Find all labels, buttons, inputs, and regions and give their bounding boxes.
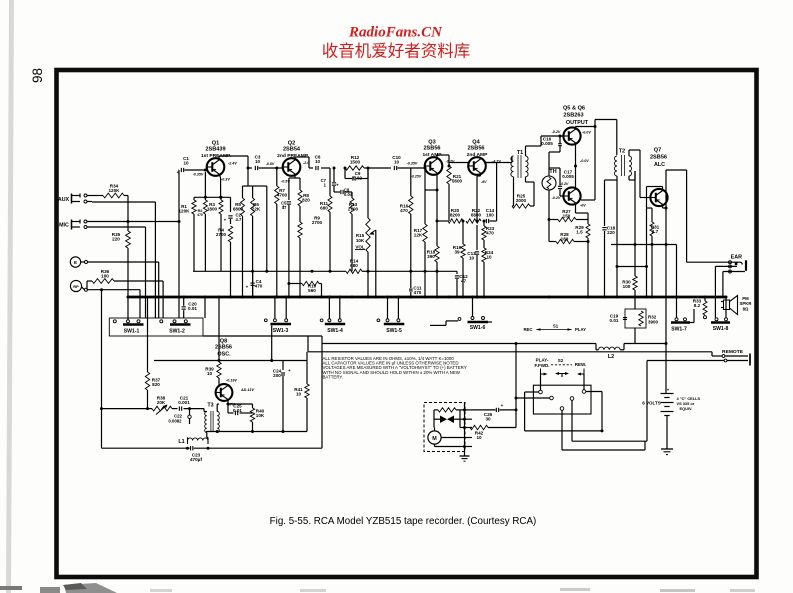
svg-text:8Ω: 8Ω (743, 306, 749, 311)
motor resistor (438, 408, 456, 412)
svg-text:39: 39 (454, 250, 460, 255)
jack E wire (87, 261, 159, 263)
svg-text:PLAY: PLAY (575, 327, 586, 332)
svg-text:SW1-8: SW1-8 (713, 326, 729, 332)
switch box SW1-1 SW1-2 (109, 318, 203, 336)
svg-text:SW1-1: SW1-1 (124, 328, 140, 334)
svg-text:100: 100 (486, 213, 494, 218)
wire remote top (711, 352, 713, 356)
svg-text:2000: 2000 (516, 198, 527, 203)
svg-text:0.0082: 0.0082 (168, 419, 182, 424)
wire MIC top (87, 221, 179, 223)
wire T1 to Q5 base (526, 145, 542, 147)
wire to C10 (368, 167, 391, 169)
wire input vertical to C1 (178, 170, 180, 318)
transistor Q6 (563, 187, 580, 204)
svg-text:-2.4V: -2.4V (228, 162, 237, 166)
svg-text:2SB56: 2SB56 (650, 155, 667, 161)
wire mid rail right part (368, 270, 457, 272)
svg-text:200: 200 (273, 373, 281, 378)
wire L2 feed riser (321, 344, 323, 449)
svg-text:5600: 5600 (452, 179, 463, 184)
svg-text:SW1-5: SW1-5 (386, 328, 402, 334)
svg-text:+: + (288, 368, 291, 373)
svg-text:+: + (177, 170, 180, 175)
wire R20 row (437, 220, 448, 222)
wire SW1-3 to osc rail (271, 325, 273, 360)
svg-text:-0.3V: -0.3V (221, 178, 230, 182)
svg-text:SPKR: SPKR (740, 301, 753, 306)
svg-text:2SB263: 2SB263 (563, 113, 583, 119)
svg-text:SW1-2: SW1-2 (169, 328, 185, 334)
wire R30 cross (611, 244, 677, 246)
wire Q4 base link (468, 163, 470, 167)
switch SW1-4 (328, 319, 331, 322)
svg-text:10: 10 (394, 160, 400, 165)
wire EAR to amp (686, 170, 688, 262)
svg-text:F.FWD.: F.FWD. (535, 363, 550, 368)
svg-text:30: 30 (485, 417, 491, 422)
svg-text:3900: 3900 (648, 320, 659, 325)
wire Q1 emitter (219, 174, 220, 178)
svg-text:0.005: 0.005 (541, 141, 553, 146)
wire base bias (243, 185, 253, 187)
svg-text:-0.2V: -0.2V (552, 196, 561, 200)
svg-text:6 VOLTS: 6 VOLTS (642, 401, 660, 406)
jack RP (70, 280, 81, 291)
wire SW1-7 feed (676, 245, 678, 298)
wire long vertical left (101, 290, 103, 449)
jack RP wire (87, 289, 140, 291)
svg-text:2SB56: 2SB56 (467, 146, 484, 152)
svg-text:SW1-3: SW1-3 (273, 328, 289, 334)
wire SW1-6 left (446, 320, 458, 322)
wire C14 up to collector line (496, 163, 498, 222)
svg-text:EQUIV.: EQUIV. (680, 406, 693, 411)
svg-text:10: 10 (486, 255, 492, 260)
svg-text:+: + (282, 204, 285, 209)
svg-text:REW.: REW. (575, 362, 587, 367)
motor M (428, 431, 441, 444)
wire MIC bottom (87, 226, 146, 228)
switch SW1-3 (273, 319, 276, 322)
svg-text:+: + (667, 388, 670, 393)
wire Q6 emitter (575, 204, 577, 213)
svg-text:1500: 1500 (350, 160, 361, 165)
svg-text:0.01: 0.01 (188, 306, 197, 311)
svg-text:470: 470 (486, 231, 494, 236)
wire mid rail (193, 270, 346, 272)
svg-text:0.01: 0.01 (610, 318, 619, 323)
motor dashed box (424, 403, 465, 452)
svg-text:EAR: EAR (731, 254, 742, 260)
svg-text:OUTPUT: OUTPUT (566, 120, 589, 126)
wire supply line (665, 170, 667, 389)
wire remote bottom (647, 360, 724, 362)
svg-text:-0.35V: -0.35V (193, 173, 204, 177)
svg-text:+: + (336, 183, 339, 188)
svg-text:收音机爱好者资料库: 收音机爱好者资料库 (322, 42, 471, 61)
svg-text:S1: S1 (553, 324, 559, 329)
svg-text:E: E (74, 260, 77, 265)
svg-text:100: 100 (101, 274, 109, 279)
switch SW1-6 (471, 317, 474, 320)
svg-text:2700: 2700 (312, 220, 323, 225)
main ground bus (128, 296, 726, 299)
svg-text:470: 470 (197, 213, 203, 217)
svg-text:2SB439: 2SB439 (205, 147, 225, 153)
svg-text:1800: 1800 (207, 207, 218, 212)
svg-text:10: 10 (255, 159, 261, 164)
svg-text:REMOTE: REMOTE (722, 349, 744, 355)
wire feed A (322, 343, 596, 345)
svg-text:+: + (246, 285, 249, 290)
wire Q5Q6 collector tie (594, 127, 596, 201)
svg-text:470μf: 470μf (190, 457, 202, 462)
svg-text:2SB54: 2SB54 (283, 147, 301, 153)
wire AUX bottom (87, 201, 92, 203)
svg-text:6800: 6800 (471, 213, 482, 218)
wire sw box feeds (204, 297, 206, 318)
wire C3 bias vertical (266, 186, 268, 271)
svg-text:4.7: 4.7 (236, 217, 242, 222)
wire Q7 emitter (662, 204, 664, 208)
svg-text:10: 10 (183, 161, 189, 166)
wire T2 secondary (628, 150, 630, 156)
switch SW1-1 (127, 320, 130, 323)
wire box bottom to feed (147, 334, 149, 336)
wire ALC feedback (647, 207, 653, 209)
wire Q8 collector column (218, 297, 220, 362)
svg-text:120K: 120K (179, 209, 191, 214)
svg-text:-0.8V: -0.8V (266, 162, 275, 166)
svg-text:BATTERY.: BATTERY. (323, 374, 344, 379)
svg-text:-0.19V: -0.19V (226, 379, 237, 383)
svg-text:560: 560 (308, 288, 316, 293)
svg-text:-0.25V: -0.25V (411, 175, 422, 179)
svg-text:820: 820 (302, 198, 310, 203)
page edge artifacts (6, 0, 14, 593)
svg-text:-0.35V: -0.35V (407, 162, 418, 166)
svg-text:+: + (501, 403, 504, 408)
svg-text:680: 680 (320, 206, 328, 211)
svg-text:WITH NO SIGNAL AND SHOULD: WITH NO SIGNAL AND SHOULD HOLD WITHIN ± … (323, 370, 461, 375)
svg-text:SW1-7: SW1-7 (671, 327, 687, 333)
svg-text:-0.2V: -0.2V (560, 182, 569, 186)
switch SW1-5 (386, 319, 389, 322)
svg-text:10: 10 (207, 371, 213, 376)
osc bottom rail (206, 431, 307, 433)
wire Q8 emitter (227, 399, 229, 413)
svg-text:10: 10 (296, 392, 302, 397)
wire Q4 emitter (480, 173, 482, 176)
wire T2 primary bottom (616, 176, 618, 297)
wire Q7 collector (662, 187, 664, 192)
svg-text:8.2: 8.2 (694, 303, 701, 308)
svg-text:820: 820 (152, 382, 160, 387)
svg-text:10K: 10K (356, 238, 365, 243)
svg-text:-6.0V: -6.0V (582, 131, 591, 135)
wire Q2 collector to C6 (294, 157, 296, 160)
svg-text:REC: REC (523, 327, 532, 332)
svg-text:L2: L2 (608, 354, 614, 360)
wire Q5 emitter down (575, 143, 577, 188)
svg-text:-0.0V: -0.0V (580, 159, 589, 163)
switch S2 arrows (541, 369, 547, 375)
wire C1 to Q1 (185, 169, 208, 171)
svg-text:680: 680 (350, 263, 358, 268)
svg-text:AUX: AUX (58, 197, 70, 203)
wire C3 to Q2 (259, 167, 284, 169)
svg-text:SW1-4: SW1-4 (327, 328, 343, 334)
motor ground (464, 452, 466, 456)
pot wiper R15 (371, 230, 376, 234)
svg-text:470: 470 (255, 284, 263, 289)
svg-text:Q5 & Q6: Q5 & Q6 (563, 106, 585, 112)
wire Q4 to T1 (485, 162, 512, 164)
wire Q3 to Q4 (449, 162, 469, 164)
jack E (70, 257, 80, 267)
svg-text:1.5: 1.5 (576, 230, 583, 235)
svg-text:10: 10 (469, 256, 475, 261)
svg-text:TH: TH (549, 169, 556, 175)
motor diode (440, 416, 447, 424)
svg-text:10K: 10K (256, 413, 265, 418)
wire Q1 collector to C3 (218, 156, 220, 160)
svg-text:T2: T2 (619, 149, 625, 155)
svg-text:470: 470 (400, 208, 408, 213)
svg-text:L1: L1 (178, 439, 184, 445)
speaker PM SPKR (730, 296, 738, 315)
wire Q1 bias rail (194, 196, 231, 198)
border frame (57, 70, 757, 577)
svg-text:8200: 8200 (450, 213, 461, 218)
svg-text:10: 10 (476, 435, 482, 440)
svg-text:0.005: 0.005 (562, 174, 574, 179)
switch SW1-2 (173, 320, 176, 323)
svg-text:RadioFans.CN: RadioFans.CN (348, 25, 443, 41)
svg-text:470: 470 (414, 290, 422, 295)
wire S2 riser (515, 344, 517, 399)
wire osc top rail (154, 360, 307, 362)
jack AUX (71, 194, 73, 204)
svg-text:47: 47 (461, 279, 467, 284)
switch S2 wires (525, 391, 539, 393)
switch SW1-7 (675, 318, 678, 321)
switch S2 box (533, 385, 591, 414)
svg-text:-0.2V: -0.2V (552, 130, 561, 134)
svg-text:2SB56: 2SB56 (215, 345, 232, 351)
svg-text:220: 220 (112, 237, 120, 242)
svg-text:RP: RP (73, 284, 79, 289)
svg-text:Q7: Q7 (654, 148, 661, 154)
svg-text:1: 1 (324, 183, 327, 188)
svg-text:Fig. 5-55. RCA Model YZB515 ta: Fig. 5-55. RCA Model YZB515 tape recorde… (270, 516, 537, 527)
svg-text:98: 98 (30, 68, 45, 83)
svg-text:ALC: ALC (654, 162, 665, 168)
svg-text:-6V: -6V (481, 180, 487, 184)
wire S2 bottom rails (572, 440, 647, 442)
switch SW1-8 (715, 318, 718, 321)
svg-text:0.001: 0.001 (178, 400, 190, 405)
pot R38 arrow (156, 406, 167, 415)
svg-text:T3: T3 (207, 403, 213, 409)
transistor Q8 (216, 384, 233, 401)
svg-text:100: 100 (623, 284, 631, 289)
svg-text:-6V: -6V (580, 204, 586, 208)
battery ground (661, 448, 673, 450)
svg-text:M: M (432, 436, 437, 442)
svg-text:S2: S2 (558, 358, 564, 363)
svg-text:SW1-6: SW1-6 (470, 325, 486, 331)
svg-text:150: 150 (563, 214, 571, 219)
svg-text:12K: 12K (414, 233, 423, 238)
wire Q5 collector to T2 (575, 127, 577, 130)
svg-text:2700: 2700 (216, 232, 227, 237)
svg-text:MIC: MIC (59, 222, 69, 228)
svg-text:10: 10 (315, 159, 321, 164)
svg-text:120K: 120K (109, 188, 121, 193)
svg-text:220: 220 (607, 230, 615, 235)
svg-text:+: + (224, 218, 227, 223)
svg-text:VOL: VOL (355, 245, 365, 250)
svg-text:390: 390 (427, 254, 435, 259)
wire feed B (308, 351, 712, 353)
jack MIC (71, 220, 73, 230)
wire T2 sec to Q7 base (639, 150, 641, 198)
wire R35 to bus (127, 248, 129, 297)
svg-text:AD.13V: AD.13V (240, 388, 254, 392)
motor contacts (460, 409, 472, 411)
wire R34 to R35 (127, 196, 129, 232)
svg-text:PLAY-: PLAY- (536, 358, 549, 363)
svg-text:20K: 20K (157, 400, 166, 405)
svg-text:2SB56: 2SB56 (423, 146, 440, 152)
